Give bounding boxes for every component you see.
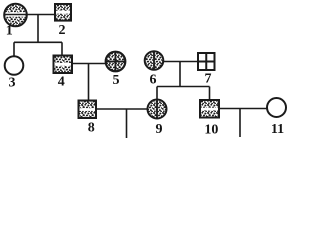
individual 6: female, vertically divided stippled circle [145, 51, 164, 70]
individual 5: female, quartered stippled circle [106, 52, 126, 72]
wire: mating line 4-5 [72, 63, 106, 65]
svg-text:1: 1 [6, 24, 13, 39]
individual 7: male, quartered open square [198, 53, 215, 70]
svg-text:2: 2 [59, 23, 66, 38]
label 5 [113, 73, 120, 88]
wire: sibship line for 9 and 10 [157, 86, 210, 88]
label 10 [204, 123, 218, 138]
wire: drop to individual 4 [61, 42, 63, 55]
individual 10: affected male, stippled square [200, 100, 219, 118]
individual 4: affected male, stippled square [54, 56, 73, 74]
label 8 [88, 121, 95, 136]
svg-text:8: 8 [88, 121, 95, 136]
wire: sibship line for 3 and 4 [14, 41, 62, 43]
wire: drop to individual 9 [156, 87, 158, 100]
label 11 [271, 122, 284, 137]
wire: drop to individual 3 [13, 42, 15, 56]
wire: descent drop from couple 6-7 [179, 62, 181, 87]
label 4 [58, 75, 65, 90]
label 6 [150, 73, 157, 88]
svg-text:7: 7 [205, 72, 212, 87]
wire: drop to individual 10 [209, 87, 211, 101]
svg-text:4: 4 [58, 75, 65, 90]
wire: child drop below couple 8-9 [126, 109, 128, 138]
wire: mating line 1-2 (passes through circle 1) [5, 14, 55, 16]
svg-text:10: 10 [204, 123, 218, 138]
label 9 [156, 122, 163, 137]
individual 9: female, vertically divided stippled circle [148, 100, 167, 119]
wire: descent drop from couple 1-2 [37, 15, 39, 43]
label 3 [9, 76, 16, 91]
individual 11: unaffected female, open circle [267, 98, 286, 117]
wire: mating line 8-9 [96, 108, 148, 110]
svg-text:3: 3 [9, 76, 16, 91]
label 1 [6, 24, 13, 39]
label 2 [59, 23, 66, 38]
wire: child drop below couple 10-11 [239, 109, 241, 138]
svg-text:5: 5 [113, 73, 120, 88]
wire: mating line 10-11 [219, 108, 267, 110]
svg-text:9: 9 [156, 122, 163, 137]
svg-text:6: 6 [150, 73, 157, 88]
individual 8: affected male, stippled square [79, 101, 97, 119]
individual 1: affected female, stippled circle [4, 4, 27, 27]
svg-text:11: 11 [271, 122, 284, 137]
individual 2: affected male, stippled square [55, 4, 71, 21]
individual 3: unaffected female, open circle [5, 56, 24, 75]
wire: descent drop from couple 4-5 to individual 8 [88, 64, 90, 101]
wire: mating line 6-7 [163, 61, 198, 63]
label 7 [205, 72, 212, 87]
